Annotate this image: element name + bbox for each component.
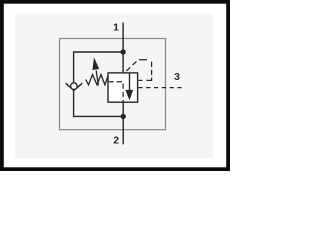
check valve V1 seat [66, 83, 83, 90]
pilot loop dashed wire [126, 60, 151, 81]
svg-text:1: 1 [113, 22, 119, 34]
border frame [2, 2, 228, 169]
valve body envelope square [108, 73, 138, 102]
valve internal flow arrow line [129, 73, 131, 91]
valve internal flow arrow head [125, 90, 133, 100]
adjustment arrow head [92, 57, 99, 70]
svg-text:3: 3 [174, 71, 180, 83]
wire port2 vertical [122, 102, 124, 144]
wire port1 vertical [122, 23, 124, 74]
valve internal pilot dashed [109, 82, 124, 102]
envelope (enclosure box) [60, 39, 166, 130]
node junction top [120, 49, 125, 54]
spring [86, 75, 108, 85]
pilot line to port 3 dashed wire [138, 87, 181, 89]
node junction bottom [121, 114, 126, 119]
adjustment arrow shaft [96, 71, 98, 86]
check valve V1 ball [71, 83, 78, 90]
svg-text:2: 2 [113, 135, 119, 147]
wire inner loop [74, 52, 124, 116]
